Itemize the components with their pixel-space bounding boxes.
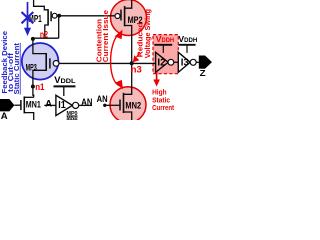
underline for Static Current (19, 43, 21, 95)
node n3 junction dot (130, 61, 134, 65)
wire MP1 gate feedback to drain (diode connection) (58, 16, 60, 39)
svg-text:n3: n3 (131, 64, 142, 75)
wire I1 input stub (44, 104, 56, 106)
wire MN1 source to ground rail (24, 113, 33, 120)
wire I1 output stub (79, 104, 92, 106)
output port Z (199, 56, 212, 69)
wire I3 to output port (196, 61, 199, 63)
svg-text:Current: Current (152, 103, 175, 112)
svg-text:I3: I3 (181, 58, 189, 69)
svg-text:Z: Z (200, 68, 206, 78)
blue crossed-out current arrow at MP1 (22, 2, 34, 29)
MP2 gate bubble (115, 14, 120, 19)
svg-text:MN2: MN2 (125, 100, 141, 111)
red contention double arrow between MP2 and MN2 (111, 33, 120, 86)
wire MP1 drain to node n2 (45, 25, 48, 38)
svg-text:A: A (45, 97, 52, 108)
VDDH supply bar for I3 (178, 44, 195, 46)
inverter I1 (56, 95, 73, 115)
node n1 junction dot (31, 85, 35, 89)
wire MP3 drain to node n1 (33, 70, 46, 97)
junction dot AN wire start (103, 104, 106, 107)
inverter I2 (156, 52, 169, 72)
transistor MP1 channel (47, 9, 49, 25)
transistor MP1 gate line (50, 11, 52, 21)
svg-text:MN1: MN1 (26, 100, 41, 111)
red note text: Reduced Voltage Swing (136, 9, 152, 58)
svg-text:n2: n2 (40, 30, 48, 41)
svg-text:Static Current: Static Current (12, 42, 21, 94)
wire node n3 row (MP3 gate to I2 input) (59, 62, 156, 64)
blue note text: Feedback Device / to Cut-off / Static Current (0, 31, 21, 95)
svg-text:n1: n1 (35, 82, 45, 93)
wire VDDH rail to MP1 source (34, 0, 49, 10)
svg-text:Current Issue: Current Issue (101, 10, 110, 62)
red arrow Reduced Voltage Swing to n3 (137, 54, 140, 58)
svg-text:A: A (1, 111, 8, 120)
svg-text:Voltage Swing: Voltage Swing (143, 9, 152, 58)
transistor MP3 gate line (49, 58, 51, 68)
transistor MP3 channel (45, 53, 47, 71)
wire MP2 drain to node n3 (125, 26, 132, 64)
wire port A to MN1 gate (14, 104, 21, 106)
red arrow high static current (down from I2 box) (156, 72, 158, 81)
highlight circle around MP3 (blue) (22, 43, 59, 80)
red note text: High Static Current (152, 87, 175, 112)
I3 output bubble (190, 59, 196, 65)
node n2 junction dot (31, 37, 35, 41)
svg-text:AN: AN (81, 97, 92, 107)
wire gate row MP1 to MP2 (57, 15, 115, 17)
transistor MP2 gate line (120, 10, 122, 21)
MP3 gate bubble (53, 61, 59, 67)
inverter I3 (178, 52, 190, 72)
VDDL supply bar for I1 (54, 85, 76, 87)
svg-text:MP3: MP3 (26, 63, 37, 74)
svg-text:I1: I1 (58, 100, 66, 111)
wire supply tap to I1 (63, 86, 65, 96)
I2 output bubble (168, 59, 174, 65)
highlight circle around MN2 (red) (110, 87, 146, 123)
svg-text:I2: I2 (157, 57, 166, 68)
transistor MN2 gate line (119, 100, 121, 111)
wire supply tap to I2 (162, 45, 164, 53)
transistor MN1 channel (23, 96, 25, 113)
wire MN1 drain stub (24, 96, 33, 98)
wire AN to MN2 gate (105, 104, 120, 106)
input port A (0, 99, 14, 111)
I1 output bubble (73, 102, 79, 108)
red note text: Contention Current Issue (94, 10, 110, 62)
junction dot at MP1 gate (57, 14, 61, 18)
wire node n2 horizontal run (33, 37, 59, 39)
wire MP2 source to VDDH rail (125, 0, 132, 8)
highlight circle around MP2 (red) (111, 0, 147, 36)
transistor MP2 channel (124, 6, 126, 26)
svg-text:AN: AN (97, 94, 108, 105)
wire n2 to MP3 source (33, 39, 46, 54)
svg-text:MN0: MN0 (67, 116, 78, 120)
wire MN2 source to ground rail (124, 112, 132, 120)
wire supply tap to I3 (186, 45, 188, 53)
MP1 gate bubble (52, 13, 57, 18)
transistor MN1 gate line (20, 100, 22, 110)
transistor MN2 channel (123, 93, 125, 113)
wire MN2 drain to node n3 (124, 63, 132, 94)
highlight dashed box around I2 (pink) (153, 35, 178, 74)
wire I2 to I3 (174, 61, 179, 63)
VDDH supply bar for I2 (154, 44, 172, 46)
